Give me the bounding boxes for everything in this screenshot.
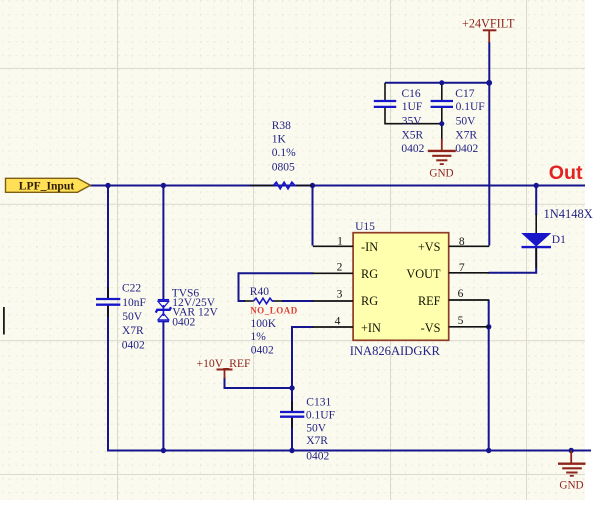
pin stubs of C16 and C17 (black) bbox=[385, 83, 442, 141]
svg-text:Out: Out bbox=[549, 162, 583, 184]
svg-text:50V: 50V bbox=[306, 422, 327, 434]
junction pin5 branch on ground rail bbox=[486, 448, 491, 453]
capacitor C16 bbox=[374, 88, 425, 155]
ground GND top (under C16/C17) bbox=[428, 139, 456, 164]
svg-text:X5R: X5R bbox=[402, 130, 424, 142]
capacitor C17 bbox=[431, 88, 485, 155]
pin labels bbox=[361, 240, 441, 335]
svg-text:U15: U15 bbox=[355, 221, 375, 233]
svg-text:0402: 0402 bbox=[401, 143, 424, 155]
junction pin5/pin6 bbox=[486, 324, 491, 329]
svg-text:RG: RG bbox=[361, 267, 378, 281]
capacitor C131 pin stubs bbox=[291, 401, 293, 428]
svg-text:35V: 35V bbox=[402, 116, 423, 128]
svg-text:8: 8 bbox=[459, 236, 465, 248]
power port +10V_REF bbox=[197, 357, 251, 379]
junction C22 branch on input net bbox=[105, 183, 110, 188]
svg-text:1: 1 bbox=[337, 236, 343, 248]
svg-text:1%: 1% bbox=[251, 331, 267, 343]
svg-text:0.1UF: 0.1UF bbox=[456, 101, 485, 113]
svg-text:C17: C17 bbox=[455, 88, 474, 100]
wire pin5 junction to bottom rail bbox=[488, 327, 490, 452]
resistor R40 bbox=[244, 286, 298, 357]
capacitor C22 pin stubs bbox=[107, 287, 109, 317]
junction +24VFILT vertical on rail bbox=[486, 80, 492, 86]
svg-text:4: 4 bbox=[335, 316, 341, 328]
svg-text:6: 6 bbox=[458, 288, 464, 300]
capacitor C22 bbox=[96, 283, 146, 352]
svg-text:-IN: -IN bbox=[361, 240, 378, 254]
svg-text:NO_LOAD: NO_LOAD bbox=[250, 306, 298, 316]
wire TVS branch vertical bbox=[162, 185, 164, 300]
svg-text:7: 7 bbox=[459, 262, 465, 274]
svg-text:1UF: 1UF bbox=[402, 101, 422, 113]
pin numbers bbox=[335, 236, 465, 328]
wire D1 top bbox=[535, 186, 537, 216]
svg-text:0402: 0402 bbox=[455, 143, 478, 155]
power port +24VFILT bbox=[462, 16, 515, 42]
resistor R38 bbox=[250, 120, 313, 189]
svg-text:C131: C131 bbox=[306, 397, 331, 409]
wire pin4 to C131 bbox=[292, 327, 314, 412]
svg-text:R38: R38 bbox=[272, 120, 291, 132]
junction D1 branch on Out net bbox=[534, 183, 539, 188]
junction R38 output / pin1 branch bbox=[310, 183, 315, 188]
wire pin2 loop to R40 bbox=[239, 273, 314, 301]
wire D1 bottom to pin7 bbox=[489, 248, 537, 273]
svg-text:+VS: +VS bbox=[418, 240, 441, 254]
svg-text:5: 5 bbox=[458, 315, 464, 327]
capacitor C131 bbox=[280, 397, 335, 463]
svg-text:X7R: X7R bbox=[122, 325, 144, 337]
svg-text:+24VFILT: +24VFILT bbox=[462, 16, 515, 30]
diode D1 pin stubs bbox=[535, 214, 537, 268]
svg-text:+10V_REF: +10V_REF bbox=[197, 357, 251, 370]
svg-text:REF: REF bbox=[418, 294, 441, 308]
svg-text:100K: 100K bbox=[251, 318, 277, 330]
svg-text:X7R: X7R bbox=[455, 130, 477, 142]
junction C17 top on +24V rail bbox=[439, 80, 444, 85]
svg-text:0.1%: 0.1% bbox=[272, 147, 296, 159]
junction C131 on ground rail bbox=[289, 448, 294, 453]
junction TVS6 on ground rail bbox=[161, 448, 166, 453]
svg-text:50V: 50V bbox=[122, 311, 143, 323]
white page margins bbox=[585, 0, 596, 514]
svg-text:D1: D1 bbox=[552, 234, 566, 246]
wire +10V_REF link bbox=[225, 377, 293, 388]
svg-text:RG: RG bbox=[361, 294, 378, 308]
wire main horizontal LPF_Input to Out bbox=[90, 42, 591, 452]
svg-text:0402: 0402 bbox=[251, 344, 274, 356]
TVS6 designator and value labels bbox=[172, 287, 219, 328]
diode D1 1N4148X bbox=[522, 207, 593, 247]
wire pin6 down to pin5 bbox=[488, 300, 490, 327]
svg-text:0402: 0402 bbox=[122, 339, 145, 351]
port LPF_Input bbox=[6, 178, 91, 192]
svg-text:LPF_Input: LPF_Input bbox=[19, 180, 75, 193]
svg-text:0.1UF: 0.1UF bbox=[306, 410, 335, 422]
svg-text:10nF: 10nF bbox=[122, 297, 146, 309]
TVS diode TVS6 bbox=[156, 300, 171, 322]
wire pin8 to +24VFILT vertical bbox=[488, 42, 490, 246]
text cursor artifact left edge bbox=[3, 307, 5, 335]
svg-text:1N4148X: 1N4148X bbox=[544, 207, 593, 221]
junction TVS6 branch on input net bbox=[161, 183, 166, 188]
svg-text:3: 3 bbox=[337, 289, 343, 301]
svg-text:GND: GND bbox=[429, 167, 453, 179]
junction +10V_REF with C131/pin4 bbox=[289, 385, 294, 390]
svg-text:R40: R40 bbox=[250, 286, 269, 298]
svg-text:X7R: X7R bbox=[306, 435, 328, 447]
junction C16/C17 bottom link bbox=[439, 121, 444, 126]
svg-text:2: 2 bbox=[337, 262, 343, 274]
svg-text:INA826AIDGKR: INA826AIDGKR bbox=[350, 344, 441, 358]
wire C16 C17 top rail bbox=[385, 82, 489, 84]
wire pin1 connection bbox=[312, 186, 314, 246]
svg-text:C22: C22 bbox=[122, 283, 141, 295]
svg-text:50V: 50V bbox=[456, 116, 477, 128]
svg-text:C16: C16 bbox=[402, 88, 421, 100]
svg-text:0402: 0402 bbox=[306, 451, 329, 463]
wire R40 to pin3 bbox=[282, 300, 314, 302]
svg-text:0402: 0402 bbox=[172, 316, 195, 328]
wire bottom rail bbox=[107, 450, 591, 452]
svg-text:+IN: +IN bbox=[361, 321, 381, 335]
svg-text:0805: 0805 bbox=[272, 161, 295, 173]
wire C22 branch vertical bbox=[107, 185, 109, 300]
svg-text:GND: GND bbox=[559, 479, 583, 491]
op-amp U15 INA826AIDGKR bbox=[313, 221, 490, 358]
svg-text:-VS: -VS bbox=[421, 321, 441, 335]
ground GND bottom right bbox=[558, 451, 586, 476]
junction GND symbol on ground rail bbox=[569, 448, 574, 453]
pin stubs bbox=[313, 246, 490, 327]
svg-text:VOUT: VOUT bbox=[406, 267, 441, 281]
svg-text:1K: 1K bbox=[272, 134, 287, 146]
